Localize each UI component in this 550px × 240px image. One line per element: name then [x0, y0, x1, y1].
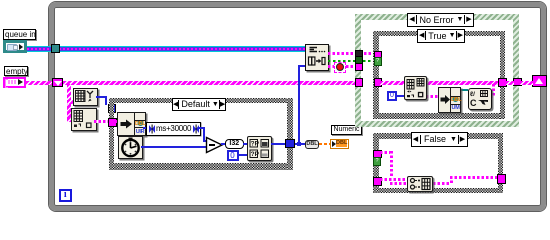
svg-text:?P: ?P — [250, 140, 259, 147]
svg-text:?P: ?P — [250, 151, 259, 158]
svg-text:C: C — [470, 98, 477, 107]
svg-text:ℓ/: ℓ/ — [469, 91, 475, 98]
